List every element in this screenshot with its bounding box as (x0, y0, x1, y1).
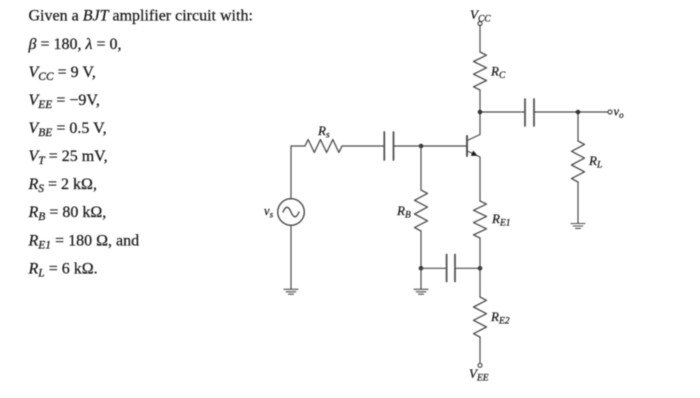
wire RB to bottom node (420, 231, 422, 268)
svg-text:VCC = 9 V,: VCC = 9 V, (29, 64, 96, 83)
wire Rs to cap C1 (342, 145, 384, 147)
svg-text:RS = 2 kΩ,: RS = 2 kΩ, (28, 176, 97, 195)
svg-text:VCC: VCC (470, 7, 491, 25)
VEE terminal (478, 363, 482, 367)
wire base node to base (421, 145, 466, 147)
resistor RC (474, 52, 487, 90)
resistor RE2 (474, 297, 487, 337)
source vs circle (278, 199, 305, 226)
wire corner down to source (290, 146, 292, 199)
wire RL to ground (577, 182, 579, 223)
wire base node down to RB (420, 146, 422, 190)
node collector (478, 110, 483, 115)
VCC terminal (478, 22, 482, 26)
resistor RE1 (474, 201, 487, 238)
wire bypass cap to emitter node (455, 267, 480, 269)
wire Rs to corner (291, 145, 305, 147)
node emitter branch (478, 266, 483, 271)
svg-text:VEE: VEE (469, 366, 489, 384)
svg-text:vs: vs (264, 204, 274, 220)
capacitor C2 (output coupling) (525, 99, 534, 126)
capacitor C1 (input coupling) (384, 132, 393, 160)
svg-text:RE2: RE2 (490, 309, 510, 327)
ground (vs) (284, 289, 298, 294)
wire source to ground (290, 225, 292, 289)
svg-text:RE1: RE1 (491, 211, 511, 229)
ground (RB) (414, 289, 428, 294)
wire vo node to terminal (578, 111, 608, 113)
svg-text:RL: RL (588, 153, 602, 171)
svg-text:Given a BJT amplifier circuit: Given a BJT amplifier circuit with: (29, 8, 253, 25)
wire cap C1 to base node (394, 145, 422, 147)
svg-text:RB = 80 kΩ,: RB = 80 kΩ, (28, 204, 107, 223)
resistor RB (415, 190, 428, 231)
svg-text:RL = 6 kΩ.: RL = 6 kΩ. (28, 260, 98, 279)
wire RC to collector node (479, 90, 481, 112)
svg-text:RE1 = 180 Ω, and: RE1 = 180 Ω, and (28, 232, 140, 251)
svg-text:Rs: Rs (317, 123, 330, 141)
wire cap to vo node (534, 111, 578, 113)
resistor RL (572, 141, 585, 182)
node base (419, 144, 424, 149)
wire node to RE2 (479, 268, 481, 297)
svg-text:VEE = −9V,: VEE = −9V, (29, 92, 100, 111)
wire collector node to output cap (480, 111, 525, 113)
wire VCC to RC (479, 26, 481, 52)
node RB bottom (419, 266, 424, 271)
ground (RL) (571, 224, 585, 229)
wire vo node down to RL (577, 112, 579, 141)
svg-text:VT = 25 mV,: VT = 25 mV, (29, 148, 108, 167)
svg-text:VBE = 0.5 V,: VBE = 0.5 V, (29, 120, 107, 139)
transistor Q1 emitter arrow (471, 151, 478, 156)
svg-text:RB: RB (396, 203, 411, 221)
svg-text:RC: RC (490, 64, 506, 82)
svg-text:β = 180, λ = 0,: β = 180, λ = 0, (28, 36, 122, 53)
source vs sine (283, 207, 299, 217)
transistor Q1 base bar (466, 136, 468, 156)
transistor Q1 collector lead (467, 112, 480, 141)
wire RE2 to VEE terminal (479, 337, 481, 363)
resistor Rs (305, 140, 342, 153)
wire RB node to bypass cap (421, 267, 447, 269)
terminal vo (608, 110, 612, 114)
capacitor C3 (bypass) (447, 255, 455, 282)
transistor Q1 emitter lead (467, 151, 480, 201)
node vo (576, 110, 581, 115)
wire RE1 to node (479, 238, 481, 268)
wire node to ground (RB) (420, 268, 422, 289)
svg-text:vo: vo (614, 105, 625, 121)
